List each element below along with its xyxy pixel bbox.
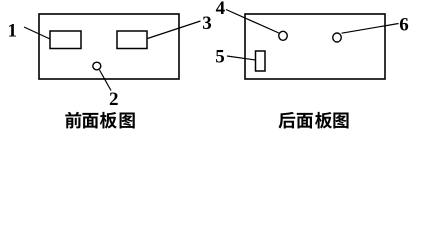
caption "后面板图"	[278, 112, 348, 129]
caption "前面板图"	[65, 112, 134, 129]
front panel display window A	[50, 31, 81, 49]
svg-text:6: 6	[399, 15, 409, 36]
leader line 3	[148, 21, 201, 39]
leader line 5	[227, 56, 256, 60]
leader line 1	[24, 27, 50, 39]
svg-text:3: 3	[202, 13, 212, 34]
front panel outline	[39, 14, 179, 79]
svg-text:4: 4	[216, 0, 226, 19]
front panel knob circle	[93, 62, 101, 70]
leader line 6	[342, 24, 399, 34]
front panel display window B	[117, 31, 147, 49]
leader line 4	[226, 10, 279, 34]
leader line 2	[100, 70, 112, 91]
rear panel socket rect	[256, 51, 266, 71]
svg-text:2: 2	[109, 89, 119, 110]
rear panel terminal circle left	[279, 31, 288, 40]
svg-text:5: 5	[215, 47, 225, 68]
rear panel outline	[245, 14, 385, 79]
rear panel terminal circle right	[333, 33, 342, 42]
svg-text:1: 1	[7, 21, 17, 42]
